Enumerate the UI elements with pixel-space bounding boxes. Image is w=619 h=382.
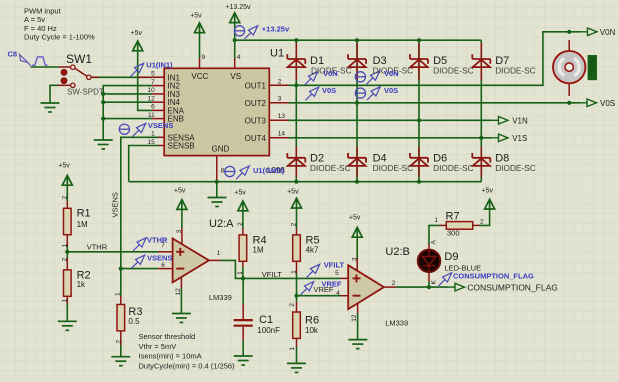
node rail D1 [294,38,298,42]
wire switch throw to ground [50,85,58,103]
wire IN bus vertical [103,86,152,140]
svg-text:1: 1 [62,299,69,303]
diode D8 [472,153,490,166]
wire SENSA to VSENS column [121,137,159,296]
svg-text:+5v: +5v [174,188,186,195]
svg-text:0.5: 0.5 [128,317,140,326]
ground switch [41,103,60,112]
wire top +13v rail [235,39,482,41]
pin motor top [568,40,570,51]
svg-text:12: 12 [175,288,182,296]
wire SENSB to ground rail [129,146,159,182]
wire +13.25v to VS node [234,23,236,58]
svg-text:PWM input: PWM input [24,6,62,15]
pin opampB out [384,286,396,288]
node V0N motor [567,30,571,34]
svg-text:SW1: SW1 [66,52,92,66]
pin opampA gnd [180,277,182,289]
pin IN4 [152,101,164,103]
probe arrow +13.25v [245,26,258,39]
wire +5v to R1 [66,185,68,201]
diode D2 [287,153,305,166]
power +5v R7 [485,199,495,209]
op-amp U2:A [173,239,209,283]
probe arrow VSENS lower [132,255,145,268]
probe arrow VSENS SENSA [133,123,146,136]
svg-text:1: 1 [217,250,221,257]
pin opampB gnd [357,303,359,313]
motor [553,51,585,83]
wire OUT4 to V1S [289,137,492,139]
resistor R6 [293,312,301,338]
pin VS [234,58,236,68]
node VSENS [119,267,123,271]
svg-text:VSENS: VSENS [147,253,172,262]
svg-text:4: 4 [336,290,340,297]
pin D1 [295,43,297,81]
svg-text:300: 300 [447,228,460,237]
wire +5v to R5 [296,208,298,229]
pin D8 [480,147,482,178]
wire +5v to R4 [242,211,244,229]
node bus IN4 [101,100,105,104]
power +5v opamp B [352,227,362,237]
ground U1 GND [208,198,227,207]
wire +5v to ENA [138,51,152,111]
node OUT3 D5 [417,118,421,122]
svg-text:K: K [431,280,438,285]
capacitor C1 [234,320,253,326]
power +5v opamp A [177,200,187,210]
terminal V1S [491,134,508,142]
node VS +13v junction [233,38,237,42]
label U1 pin numbers [147,54,285,174]
wire D7 D8 column [480,40,482,182]
wire VREF row [297,295,341,297]
node bus IN3 [101,92,105,96]
svg-text:5: 5 [335,270,339,277]
resistor R1 [64,208,72,234]
generator C8 probe arrow [20,55,31,67]
pin R3 top [120,296,122,304]
svg-text:2: 2 [116,340,123,344]
power +5v R1 [62,175,72,185]
wire ENB [103,118,152,120]
svg-text:R6: R6 [305,315,319,327]
terminal V0S [580,99,597,107]
probe arrow V0N D3 [367,71,380,84]
svg-text:LM339: LM339 [209,293,232,302]
svg-text:1k: 1k [77,280,86,289]
wire D1 D2 column [295,40,297,182]
op-amp U1 body L298 [164,68,269,155]
pin R7 right [473,224,480,226]
wire VTHR row [67,251,158,253]
pin SENSA [159,136,165,138]
svg-text:V0N: V0N [323,69,338,78]
wire opamp B output row [396,286,448,288]
svg-text:6: 6 [161,262,165,269]
node bus ENB [101,117,105,121]
pin D2 [295,147,297,178]
power +5v R4 [238,201,248,211]
svg-text:C8: C8 [8,50,18,59]
svg-text:7: 7 [151,79,155,86]
svg-text:U1(GND): U1(GND) [253,166,285,175]
svg-text:VS: VS [230,72,241,81]
wire OUT3 to V1N [289,119,492,121]
pin OUT1 [269,84,288,86]
pin VCC [199,58,201,68]
wire rail to ground symbol [216,182,218,198]
pin R5 top [296,229,298,236]
generator C8 pulse symbol [32,57,48,65]
pin C1 bottom [242,327,244,341]
wire R5 to VREF node [296,273,298,296]
switch SW1 [61,65,91,88]
node OUT4 D7 [479,136,483,140]
svg-text:V0S: V0S [600,99,615,108]
wire opamp A ground pin [180,289,182,314]
pin R2 bottom [66,296,68,304]
wire OUT2 to V0S [289,102,581,104]
svg-text:2: 2 [237,222,244,226]
svg-text:VCC: VCC [191,72,208,81]
pin R4 bottom [242,261,244,267]
probe circle V0S D3 [355,88,365,98]
svg-text:V1S: V1S [512,134,527,143]
diode D3 [348,54,366,67]
terminal V0N [580,28,597,36]
wire opamp B ground pin [357,313,359,340]
wire R7 to +5v [480,209,490,225]
pin opampB plus [341,277,349,279]
ground opamp B [348,340,367,349]
svg-text:1M: 1M [77,220,88,229]
pin OUT4 [269,137,288,139]
svg-text:V0N: V0N [384,69,399,78]
pin OUT2 [269,102,288,104]
wire pulse source to switch [31,66,59,68]
svg-text:VSENS: VSENS [148,121,173,130]
wire IN3 [103,93,152,95]
svg-text:100nF: 100nF [257,326,280,335]
svg-text:3: 3 [278,95,282,102]
svg-text:A: A [431,240,438,245]
svg-text:+5v: +5v [287,188,299,195]
probe arrow U1(IN1) [131,63,144,76]
pin R5 bottom [296,261,298,273]
svg-text:+5v: +5v [131,30,143,37]
pin R1 top [66,201,68,209]
wire R1 to VTHR node [66,246,68,252]
svg-text:+5v: +5v [349,215,361,222]
svg-text:5: 5 [151,71,155,78]
svg-text:3: 3 [351,257,358,261]
svg-text:Isens(min) = 10mA: Isens(min) = 10mA [139,352,202,361]
svg-text:SW-SPDT: SW-SPDT [67,88,104,97]
svg-text:13: 13 [278,113,286,120]
probe arrow VREF [301,282,314,295]
pin numbers R1 R2 [62,196,485,351]
pin switch pole [91,76,99,78]
svg-text:+5v: +5v [190,13,202,20]
svg-text:SENSB: SENSB [168,142,195,151]
pin D7 [480,43,482,81]
svg-text:DIODE-SC: DIODE-SC [433,163,474,173]
pin D4 [356,147,358,178]
svg-text:OUT2: OUT2 [245,99,267,108]
node rail D5 [417,38,421,42]
svg-text:VREF: VREF [322,280,342,289]
power +5v VCC [195,23,205,33]
svg-text:C1: C1 [259,314,273,326]
svg-text:2: 2 [62,258,69,262]
pin IN1 [138,76,164,78]
power +5v R5 [292,198,302,208]
terminal CONSUMPTION_FLAG [448,283,465,291]
svg-text:DIODE-SC: DIODE-SC [373,163,414,173]
resistor R3 [117,305,125,331]
pin GND8 [216,156,218,181]
svg-text:11: 11 [148,112,155,119]
svg-text:7: 7 [161,242,165,249]
op-amp U2:B [348,265,384,309]
pin IN3 [152,93,164,95]
svg-text:DIODE-SC: DIODE-SC [433,66,474,76]
svg-text:+5v: +5v [58,163,70,170]
pin D9 anode [428,244,430,250]
ground IN bus [94,140,113,149]
wire VFILT to C1 [242,278,244,304]
svg-text:DutyCycle(min) = 0.4 (1/256): DutyCycle(min) = 0.4 (1/256) [139,361,236,370]
svg-text:DIODE-SC: DIODE-SC [495,66,536,76]
pin R6 bottom [296,339,298,348]
pin R3 bottom [120,332,122,346]
svg-text:U2:B: U2:B [385,246,409,258]
pin switch throw2 [58,84,70,86]
pin motor bottom [568,83,570,96]
wire +5v to opamp B power [356,237,358,258]
svg-text:2: 2 [62,196,69,200]
node OUT1 D1 [294,83,298,87]
probe arrow V0S D3 [367,87,380,100]
wire R2 to ground [66,304,68,322]
probe circle VSENS SENSA [119,124,129,134]
ground R2 [58,321,77,330]
node VREF R5 R6 [294,294,298,298]
svg-text:9: 9 [202,54,206,61]
pin IN2 [152,85,164,87]
pin opampA out [209,259,221,261]
wire +5v to opamp A power [181,209,183,228]
pin OUT3 [269,119,288,121]
svg-text:V0S: V0S [322,86,336,95]
pin opampB minus [341,295,349,297]
pin opampA minus [158,268,173,270]
svg-text:R1: R1 [77,208,91,220]
svg-text:U2:A: U2:A [209,218,234,230]
node rail D3 [355,38,359,42]
pin pulse to switch [59,66,70,68]
wire OUT1 to motor top and V0N [289,32,581,86]
probe arrow V0S D1 [306,87,319,100]
resistor R2 [64,270,72,296]
svg-text:15: 15 [147,139,155,146]
label U1 pin names [168,72,267,153]
svg-text:U1: U1 [270,48,284,60]
node VTHR [65,250,69,254]
resistor R4 [239,235,247,261]
wire D9 anode to R7 [429,225,440,244]
LED D9 [418,250,440,272]
svg-text:R7: R7 [446,210,460,222]
svg-text:DIODE-SC: DIODE-SC [310,163,351,173]
pin opampB pwr [356,258,358,271]
wire R6 to ground [296,347,298,363]
pin opampA pwr [181,228,183,244]
ground R6 [287,363,306,372]
svg-text:OUT3: OUT3 [245,116,267,125]
pin R1 bottom [66,235,68,246]
svg-text:+13.25v: +13.25v [225,4,251,11]
node D9 output [427,285,431,289]
svg-text:14: 14 [278,131,286,138]
svg-text:4: 4 [237,54,241,61]
svg-text:2: 2 [291,223,298,227]
svg-text:+13.25v: +13.25v [262,24,290,33]
probe arrow VFILT [307,264,320,277]
pin R7 left [440,224,447,226]
motor label plate [588,55,597,80]
svg-text:A = 5v: A = 5v [24,15,45,24]
diode D1 [287,54,305,67]
svg-text:V0S: V0S [384,86,398,95]
svg-text:1M: 1M [253,245,264,254]
pin D9 cathode [428,272,430,282]
svg-text:2: 2 [392,280,396,287]
probe circle V0N D3 [355,72,365,82]
svg-text:4k7: 4k7 [306,245,319,254]
pin R2 top [66,258,68,270]
svg-text:DIODE-SC: DIODE-SC [495,163,536,173]
terminal V1N [491,117,508,125]
svg-text:CONSUMPTION_FLAG: CONSUMPTION_FLAG [453,271,534,280]
svg-text:2: 2 [278,79,282,86]
svg-text:10k: 10k [305,326,319,335]
wire R3 to ground [120,345,122,357]
svg-text:U1(IN1): U1(IN1) [146,61,173,70]
ground opamp A [172,314,191,323]
wire D3 D4 column [356,40,358,182]
node gnd rail GND pin [215,180,219,184]
svg-text:1: 1 [115,292,122,296]
annotation PWM input block [24,6,95,41]
annotation sensor threshold block [139,332,236,370]
power +5v switch ENA [133,41,143,51]
probe circle +13.25v [234,26,244,36]
svg-text:D9: D9 [444,251,458,263]
pin R6 top [296,302,298,312]
svg-text:Duty Cycle = 1-100%: Duty Cycle = 1-100% [24,33,95,42]
pin D5 [418,43,420,81]
diode D7 [472,54,490,67]
ground C1 [234,356,253,365]
diode D6 [410,153,428,166]
power +13.25v VS [230,13,240,23]
svg-text:10: 10 [147,87,155,94]
node gnd rail D4 [355,180,359,184]
node VFILT R4 C1 [241,276,245,280]
svg-text:1: 1 [291,270,298,274]
wire IN4 [103,101,152,103]
wire D9 cathode joint [428,282,430,288]
wire D5 D6 column [418,40,420,182]
pin ENB [152,118,164,120]
wire ground rail [129,181,482,183]
svg-text:1: 1 [151,131,155,138]
svg-text:1: 1 [62,244,69,248]
svg-text:VFILT: VFILT [324,260,345,269]
svg-text:Vthr = 5mV: Vthr = 5mV [139,342,177,351]
svg-text:2: 2 [480,218,484,225]
svg-text:V0N: V0N [600,28,616,37]
pin SENSB [159,145,165,147]
svg-text:8: 8 [221,167,225,174]
node OUT2 D3 [355,101,359,105]
svg-text:VFILT: VFILT [262,270,282,279]
resistor R7 [446,222,472,230]
pin opampA plus [158,251,173,253]
pin R4 top [242,229,244,236]
diode D5 [410,54,428,67]
pin D3 [356,43,358,81]
svg-text:12: 12 [351,314,358,322]
wire R4 to VFILT [242,267,244,278]
pin ENA [152,109,164,111]
svg-text:V1N: V1N [512,117,528,126]
svg-text:1: 1 [237,271,244,275]
svg-text:CONSUMPTION_FLAG: CONSUMPTION_FLAG [467,283,558,293]
svg-text:GND: GND [212,144,230,153]
svg-text:6: 6 [151,104,155,111]
node V0S motor [567,101,571,105]
wire VSENS row to opamp minus [121,268,158,270]
probe arrow U1(GND) [236,166,249,179]
svg-text:Sensor threshold: Sensor threshold [139,332,196,341]
svg-text:OUT1: OUT1 [245,81,267,90]
probe circle U1(GND) [225,166,235,176]
probe arrow CONSUMPTION_FLAG [439,273,452,286]
svg-text:LM339: LM339 [385,319,408,328]
svg-text:OUT4: OUT4 [245,134,267,143]
wire switch pole to IN1 [91,76,152,78]
svg-text:VSENS: VSENS [111,192,120,217]
pin C1 top [242,304,244,319]
svg-text:+5v: +5v [482,188,494,195]
svg-text:1: 1 [434,217,438,224]
svg-text:2: 2 [289,303,296,307]
node gnd rail D6 [417,180,421,184]
node gnd rail D2 [294,180,298,184]
probe arrow V0N D1 [305,72,318,85]
resistor R5 [293,235,301,261]
wire VTHR to R2 [66,252,68,258]
wire C1 to ground [242,341,244,357]
wire +5v VCC [199,33,201,58]
pin D6 [418,147,420,178]
svg-text:+5v: +5v [234,190,246,197]
